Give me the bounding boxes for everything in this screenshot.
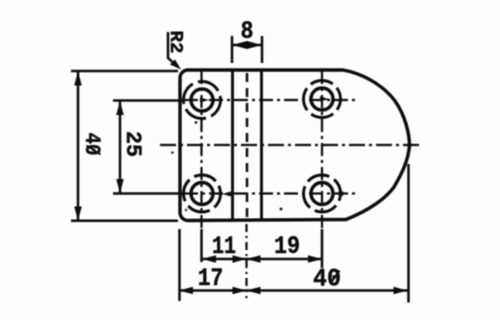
dim 11 arrow right	[233, 255, 247, 263]
R2 leader arrow	[170, 60, 181, 70]
dim 19 arrow right	[308, 255, 322, 263]
dim 17 arrow right	[233, 287, 247, 295]
svg-text:19: 19	[274, 232, 300, 261]
dim 8 extension line left	[231, 36, 234, 63]
bottom extension line plate left edge	[178, 229, 181, 301]
dim 17/40 line	[180, 289, 408, 292]
dim 40 left arrow top	[74, 72, 82, 86]
knuckle fold line left	[231, 70, 234, 221]
dim 8 arrow right	[247, 41, 262, 49]
scan speck	[195, 121, 198, 124]
svg-text:40: 40	[79, 133, 104, 156]
dim 40 bottom arrow right	[394, 287, 408, 295]
dim 25 label	[120, 131, 145, 157]
hole bottom-left center arrow	[222, 192, 231, 197]
hole row centerline top	[113, 99, 184, 102]
dim 40 left extension top	[71, 70, 178, 73]
knuckle center dashed line	[246, 73, 249, 220]
dim 25 arrow top	[116, 101, 124, 115]
dim 25 line	[119, 101, 122, 193]
hole top-left center arrow	[200, 98, 209, 103]
hole bottom-left inner circle	[191, 183, 213, 205]
svg-text:17: 17	[198, 264, 224, 293]
R2 label	[165, 31, 185, 54]
dim 8 extension line right	[261, 36, 264, 63]
scan speck	[280, 208, 283, 211]
hole bottom-left countersink broken circle	[184, 175, 221, 212]
knuckle fold line right	[260, 70, 263, 221]
bottom extension line right end of part	[407, 164, 410, 303]
hole top-right countersink broken circle	[304, 81, 341, 118]
hole top-right inner circle	[311, 88, 333, 110]
dim 40 left arrow bottom	[74, 207, 82, 221]
dim 40 bottom arrow left	[247, 287, 261, 295]
hole top-left inner circle	[191, 89, 213, 111]
knuckle center extension below	[245, 224, 247, 298]
dim 11/19 line	[202, 258, 322, 261]
dim 40 left line	[77, 72, 80, 221]
R2 leader line	[168, 32, 178, 67]
dim 17 arrow left	[179, 287, 193, 295]
scan speck	[180, 79, 182, 81]
svg-text:40: 40	[313, 265, 341, 294]
hole bottom-right inner circle	[311, 183, 333, 205]
svg-text:25: 25	[120, 131, 145, 157]
hole row centerline bottom	[113, 192, 184, 195]
svg-text:R2: R2	[165, 31, 185, 54]
svg-text:11: 11	[212, 232, 236, 261]
hole top-right center arrow	[320, 97, 329, 102]
dim 19 arrow left	[247, 255, 261, 263]
dim 40 bottom zero slash	[330, 271, 340, 285]
hole column centerline left	[200, 71, 202, 228]
hole bottom-right countersink broken circle	[304, 175, 341, 212]
svg-text:8: 8	[241, 17, 254, 46]
scan speck	[171, 151, 174, 154]
dim 11 arrow left	[202, 255, 216, 263]
main horizontal centerline	[160, 144, 422, 146]
scan speck	[185, 209, 187, 211]
part outline (hinge plate with rounded right end)	[180, 70, 410, 221]
hole column centerline right	[321, 71, 323, 228]
dim 25 arrow bottom	[116, 179, 124, 193]
dim 40 left extension bottom	[71, 220, 178, 223]
dim 8 line	[232, 44, 262, 47]
hole top-left countersink broken circle	[184, 82, 221, 119]
dim 40 left label	[79, 133, 104, 156]
dim 8 arrow left	[232, 41, 247, 49]
hole bottom-right center arrow	[334, 191, 343, 196]
